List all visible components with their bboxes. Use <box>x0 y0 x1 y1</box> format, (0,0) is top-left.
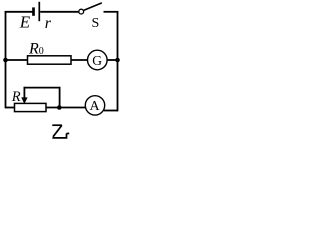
rheostat R <box>15 103 47 111</box>
wire wiper loop top <box>24 87 60 89</box>
svg-text:0: 0 <box>39 46 44 57</box>
svg-text:E: E <box>19 13 31 32</box>
wire rheostat to A <box>46 107 86 109</box>
svg-text:S: S <box>92 16 100 31</box>
ammeter A <box>85 96 104 115</box>
wire G to right wire <box>107 59 117 61</box>
svg-text:R: R <box>28 40 39 57</box>
galvanometer G <box>88 50 108 70</box>
wire top-right segment <box>104 11 119 13</box>
svg-text:R: R <box>11 89 21 105</box>
wire middle-left segment <box>5 59 28 61</box>
node wiper junction <box>57 105 62 110</box>
wire A to right corner <box>104 110 118 112</box>
wire top-left segment <box>5 11 33 13</box>
wire left vertical <box>5 11 7 108</box>
resistor R0 <box>28 56 72 64</box>
battery cell (E, r) <box>34 2 40 21</box>
svg-text:A: A <box>90 99 101 114</box>
wire battery to switch <box>40 11 78 13</box>
svg-text:r: r <box>45 15 52 32</box>
wire right vertical <box>117 11 119 111</box>
wire bottom-left segment <box>5 107 15 109</box>
wire R0 to G <box>71 59 88 61</box>
switch S <box>79 3 102 14</box>
wire wiper loop right <box>59 87 61 108</box>
wiper arrow <box>21 87 27 104</box>
node left junction <box>3 58 8 63</box>
label 乙 <box>52 125 69 138</box>
node right junction <box>115 58 120 63</box>
svg-text:G: G <box>92 53 102 68</box>
